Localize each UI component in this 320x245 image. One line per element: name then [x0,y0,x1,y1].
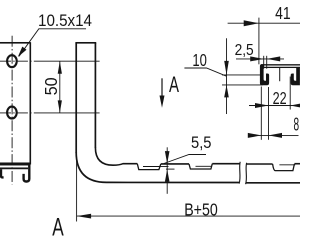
svg-text:B+50: B+50 [184,199,218,219]
41 extension line [258,18,260,65]
svg-text:8: 8 [293,115,299,135]
dimension 50 arrow up [58,61,62,74]
web outer line [261,64,300,66]
8 arrow left [268,133,282,138]
5,5 extension stub lower [166,168,175,170]
B+50 arrow left [77,214,92,219]
2,5 dimension line [236,58,284,60]
slot A [137,164,161,170]
22 arrow right [255,103,269,108]
channel top web bar [0,163,29,166]
5,5 leader [164,155,206,164]
side view left vertical [75,43,77,153]
left wall and hook (filled) [260,64,269,85]
plate right edge [29,42,31,164]
horizontal centerline hole 2 [0,112,40,114]
5,5 arrow up [165,169,170,182]
22 arrow left [290,103,304,108]
10 extension line lower [222,84,263,86]
41 dimension line [228,22,300,24]
22 extension line left [267,87,269,140]
outer bend and bottom line [76,152,239,182]
leader 10.5x14 arrowhead [18,47,27,57]
22 dimension line [249,105,299,107]
10 arrow down [224,61,229,75]
2,5 extension line b [266,56,268,69]
5,5 dimension line [166,147,168,194]
arm bottom after break [246,182,300,184]
slotted hole 10.5x14 (top) [7,55,17,67]
arm top line 1 [161,163,189,165]
section arrow A head [160,96,165,108]
slot A inner line [143,165,160,167]
side view right vertical [94,43,96,148]
slot D [273,164,295,171]
arm top line 2 [212,163,240,165]
inner bend with dip [95,147,137,165]
break line right [246,163,247,184]
vertical centerline [11,36,13,185]
slotted hole 10.5x14 (bottom) [7,107,17,119]
extension line hole 1 to side view [40,60,100,62]
svg-text:2,5: 2,5 [235,42,254,59]
web inner line [264,66,300,68]
channel inner line [0,167,28,169]
10 leader shelf [184,68,226,76]
leader 10.5x14 shelf [19,29,86,57]
41 arrow [244,20,259,26]
8 dimension line [249,134,298,136]
2,5 arrow right [250,56,264,61]
mid rib line [279,68,281,82]
extension line hole 2 to side view [40,112,100,114]
svg-text:50: 50 [41,77,61,95]
slot B inner line [195,165,211,167]
svg-text:10: 10 [192,50,207,70]
arm top line 4 [294,163,300,165]
slot B [189,164,212,169]
22 extension line right [289,77,291,110]
side view top edge [75,42,96,44]
slot D inner line [279,164,295,166]
right hook (filled, cropped) [291,67,300,85]
10 arrow up [224,85,229,98]
break line left [239,162,240,184]
2,5 extension line a [263,56,265,69]
10 dimension line [226,38,228,114]
B+50 dimension line [77,215,300,217]
10 extension line upper [222,74,263,76]
channel right wall and hook [24,163,30,181]
8 extension line [260,87,262,140]
dimension 50 arrow down [58,100,62,113]
svg-text:10.5x14: 10.5x14 [38,11,92,30]
8 arrow right [248,133,262,138]
arm top line 3 [246,163,272,165]
svg-text:41: 41 [275,3,291,23]
B+50 extension line [76,155,78,221]
plate top edge [0,42,30,44]
svg-text:A: A [169,72,179,97]
svg-text:22: 22 [273,88,287,108]
5,5 arrow down [165,151,170,164]
2,5 arrow left [267,56,281,61]
5,5 extension stub upper [160,166,169,168]
channel left lip stub [1,169,4,177]
svg-text:5,5: 5,5 [191,133,212,152]
dimension 50 line [59,61,61,113]
svg-text:A: A [52,214,64,242]
horizontal centerline hole 1 [0,60,40,62]
